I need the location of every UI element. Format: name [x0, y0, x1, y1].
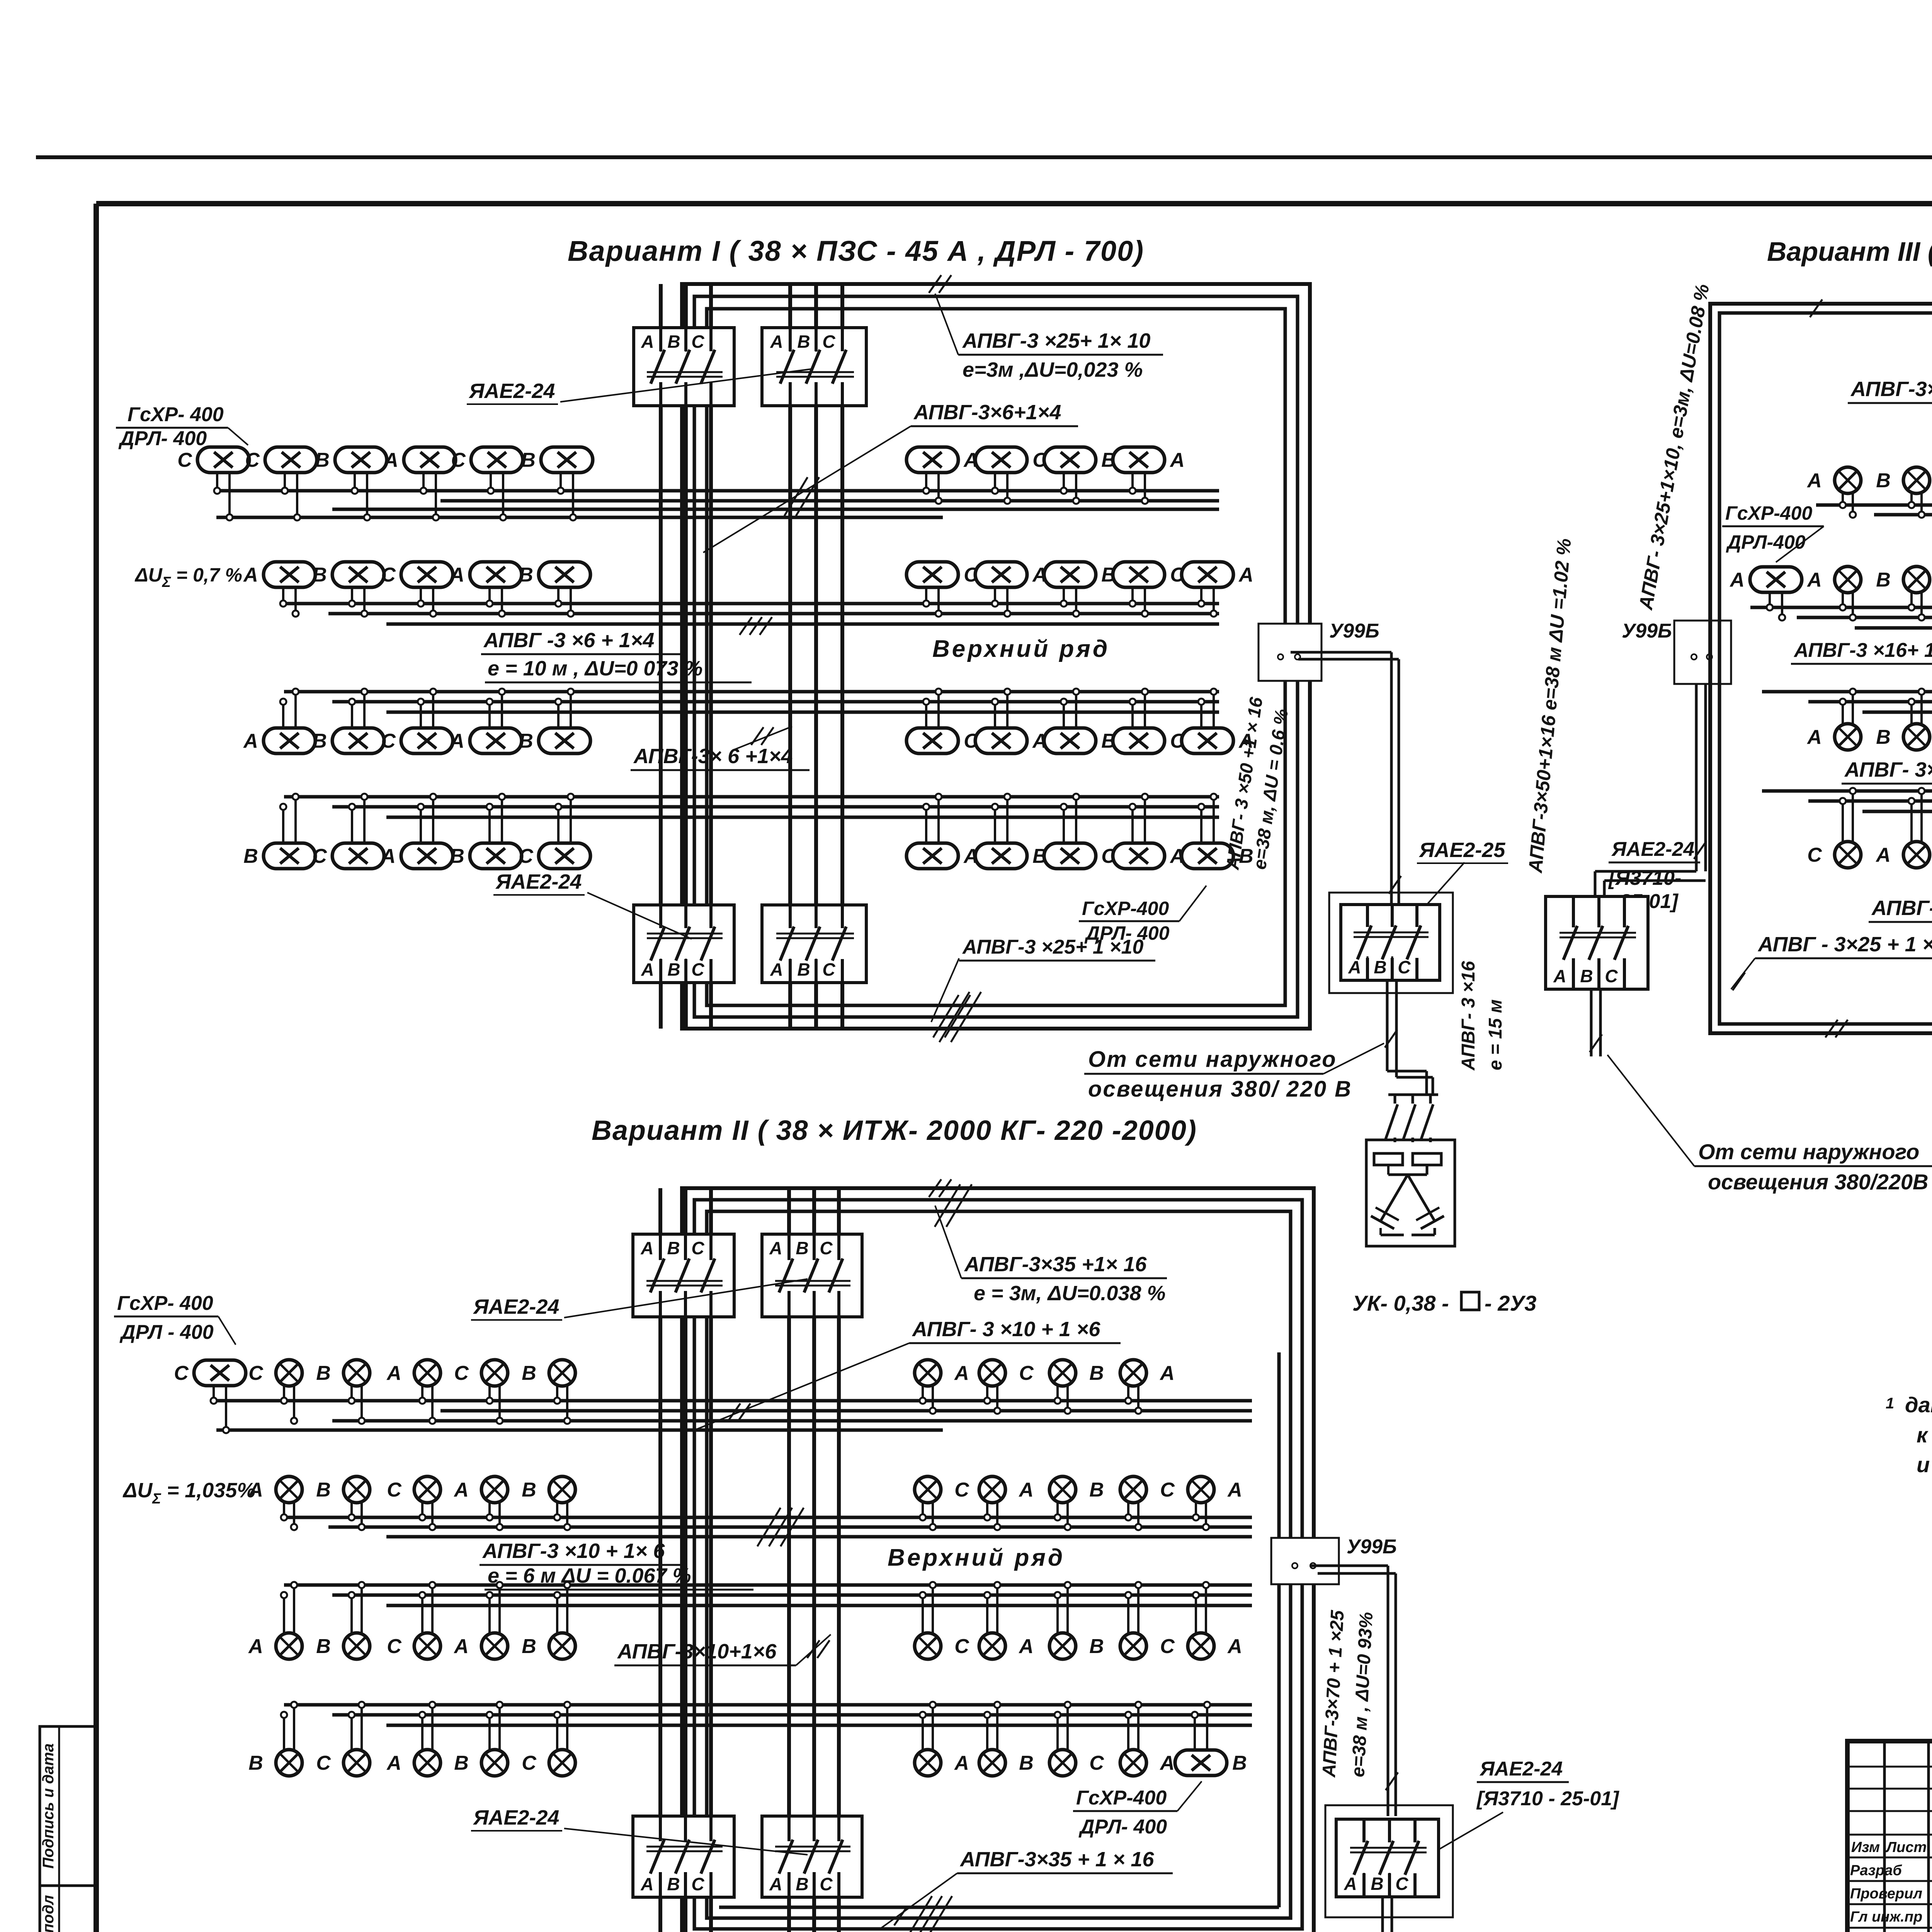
- lamp HL23 (С) ДРЛ-400 floodlight: [381, 689, 453, 753]
- svg-text:С: С: [1160, 1635, 1175, 1658]
- svg-text:С: С: [1605, 966, 1618, 986]
- svg-text:А: А: [954, 1752, 969, 1774]
- lamp HL87 (С) ИТЖ lamp: [387, 1582, 440, 1659]
- svg-text:ЯАЕ2-24: ЯАЕ2-24: [1611, 838, 1694, 861]
- lamp HL85 (А) ИТЖ lamp: [248, 1582, 302, 1659]
- svg-text:А: А: [248, 1479, 263, 1501]
- svg-text:В: В: [521, 449, 536, 471]
- svg-text:В: В: [519, 564, 533, 586]
- svg-text:А: А: [1238, 564, 1253, 586]
- svg-text:В: В: [797, 332, 810, 352]
- lamp HL96 (С) ИТЖ lamp: [316, 1702, 370, 1776]
- lamp HL25 (В) ДРЛ-400 floodlight: [519, 689, 590, 753]
- svg-text:С: С: [691, 959, 704, 980]
- svg-text:В: В: [1876, 726, 1891, 748]
- lamp HL24 (А) ДРЛ-400 floodlight: [449, 689, 522, 753]
- wire slash marks on loop I: [929, 275, 941, 293]
- svg-text:Верхний ряд: Верхний ряд: [888, 1544, 1065, 1571]
- svg-text:С: С: [822, 959, 835, 980]
- svg-text:С: С: [1807, 844, 1822, 866]
- lamp HL104 (В) ДРЛ-400 floodlight: [1175, 1702, 1247, 1776]
- svg-text:А: А: [1875, 844, 1891, 866]
- lamp HL18 (В) ДРЛ-400 floodlight: [1044, 562, 1116, 617]
- wire bus row4 variant I: [284, 797, 1219, 817]
- label АПВГ-3×25+1×10 ΔU=0.08% rotated: [1634, 282, 1713, 612]
- svg-text:В: В: [312, 730, 327, 752]
- wire bus row3 variant III: [1762, 692, 1932, 712]
- lamp HL29 (С) ДРЛ-400 floodlight: [1113, 689, 1185, 753]
- svg-text:А: А: [1018, 1635, 1034, 1658]
- svg-text:ЯАЕ2-24: ЯАЕ2-24: [1479, 1758, 1563, 1780]
- label ГсХР-400/ДРЛ-400 II right: [1073, 1781, 1202, 1838]
- label АПВГ-3×25+1×10 top: [935, 294, 1163, 381]
- left margin box Инв № подл: [40, 1886, 97, 1932]
- svg-text:В: В: [1089, 1362, 1104, 1384]
- lamp HL78 (А) ИТЖ lamp: [453, 1476, 508, 1530]
- lamp HL84 (А) ИТЖ lamp: [1188, 1476, 1242, 1530]
- svg-text:освещения 380/ 220 В: освещения 380/ 220 В: [1088, 1077, 1352, 1102]
- svg-text:А: А: [449, 730, 464, 752]
- svg-text:С: С: [381, 564, 396, 586]
- label АПВГ-3×6+1×4 row2: [481, 617, 772, 682]
- svg-text:В: В: [316, 1635, 331, 1658]
- svg-text:ЯАЕ2-24: ЯАЕ2-24: [473, 1806, 559, 1829]
- svg-text:А: А: [641, 332, 654, 352]
- svg-text:ДРЛ- 400: ДРЛ- 400: [1078, 1816, 1167, 1838]
- svg-text:Подпись и дата: Подпись и дата: [40, 1743, 57, 1869]
- svg-text:А: А: [453, 1635, 469, 1658]
- svg-text:к варианту установки более: к варианту установки более 6 ИТЖ-5000: [1917, 1423, 1932, 1447]
- svg-text:А: А: [383, 449, 398, 471]
- svg-text:С: С: [820, 1874, 833, 1894]
- cable loop variant I: [682, 284, 1310, 1029]
- svg-text:А: А: [770, 959, 783, 980]
- capacitor unit УК-0,38: [1366, 1140, 1455, 1246]
- lamp HL15 (В) ДРЛ-400 floodlight: [519, 562, 590, 617]
- svg-text:С: С: [691, 1874, 704, 1894]
- lamp HL3 (В) ДРЛ-400 floodlight: [315, 447, 387, 520]
- lamp HL89 (В) ИТЖ lamp: [522, 1582, 575, 1659]
- lamp HL76 (В) ИТЖ lamp: [316, 1476, 370, 1530]
- lamp HL82 (В) ИТЖ lamp: [1049, 1476, 1104, 1530]
- lamp HL1 (С) ДРЛ-400 floodlight: [177, 447, 249, 520]
- label АПВГ-3×35+1×16 II bottom: [881, 1848, 1173, 1928]
- lamp HL102 (С) ИТЖ lamp: [1049, 1702, 1104, 1776]
- svg-text:Вариант III ( 12× ИТЖ-5000, КГ: Вариант III ( 12× ИТЖ-5000, КГ-220-5000 …: [1767, 236, 1932, 267]
- svg-text:А: А: [243, 564, 258, 586]
- svg-text:В: В: [667, 1874, 680, 1894]
- svg-text:АПВГ-3×35 + 1 × 16: АПВГ-3×35 + 1 × 16: [959, 1848, 1154, 1871]
- lamp HL53 (А) ИТЖ lamp: [1806, 689, 1861, 750]
- svg-text:В: В: [796, 1238, 808, 1258]
- svg-text:е = 15 м: е = 15 м: [1485, 999, 1506, 1070]
- lamp HL22 (В) ДРЛ-400 floodlight: [312, 689, 384, 753]
- svg-text:С: С: [1160, 1479, 1175, 1501]
- svg-text:Инв № подл: Инв № подл: [40, 1895, 57, 1932]
- wire ЯАЕ2-25 down: [1387, 980, 1433, 1095]
- label ГсХР-400/ДРЛ-400 top-left: [116, 403, 248, 450]
- svg-text:В: В: [519, 730, 533, 752]
- svg-text:- 2У3: - 2У3: [1485, 1291, 1536, 1315]
- svg-text:АПВГ-3 ×16+ 1×10, е=6м ΔU=0.: АПВГ-3 ×16+ 1×10, е=6м ΔU=0.063%: [1793, 639, 1932, 662]
- svg-text:ГсХР- 400: ГсХР- 400: [117, 1292, 213, 1315]
- lamp HL2 (С) ДРЛ-400 floodlight: [245, 447, 317, 520]
- svg-text:В: В: [1580, 966, 1593, 986]
- lamp HL46 (А) ДРЛ-400 floodlight: [1729, 567, 1802, 621]
- svg-text:А: А: [1018, 1479, 1034, 1501]
- lamp HL14 (А) ДРЛ-400 floodlight: [449, 562, 522, 617]
- svg-text:У99Б: У99Б: [1347, 1536, 1397, 1558]
- svg-text:Вариант II ( 38 × ИТЖ- 2000: Вариант II ( 38 × ИТЖ- 2000 КГ- 220 -200…: [592, 1115, 1197, 1146]
- svg-text:От сети наружного: От сети наружного: [1698, 1139, 1919, 1164]
- svg-text:АПВГ-3 ×25+ 1 ×10: АПВГ-3 ×25+ 1 ×10: [962, 936, 1143, 958]
- leader line: [560, 369, 811, 402]
- svg-text:[Я3710 - 25-01]: [Я3710 - 25-01]: [1476, 1787, 1619, 1810]
- junction box У99Б: [1622, 620, 1731, 684]
- svg-text:С: С: [1398, 957, 1411, 977]
- lamp HL73 (В) ИТЖ lamp: [1049, 1360, 1104, 1414]
- lamp HL28 (В) ДРЛ-400 floodlight: [1044, 689, 1116, 753]
- svg-text:С: С: [381, 730, 396, 752]
- svg-text:В: В: [1089, 1479, 1104, 1501]
- svg-text:С: С: [177, 449, 192, 471]
- svg-text:АПВГ- 3 × 16 + 1×10: АПВГ- 3 × 16 + 1×10: [1871, 896, 1932, 920]
- lamp HL38 (С) ДРЛ-400 floodlight: [1044, 794, 1116, 869]
- wire У99Б III down: [1595, 684, 1706, 896]
- breaker box Q5 ЯАЕ2-25: [1341, 905, 1440, 980]
- lamp HL101 (В) ИТЖ lamp: [979, 1702, 1034, 1776]
- label От сети наружного освещения 380/220 В (variant II): [1403, 1928, 1767, 1932]
- breaker box Q6 ЯАЕ2-24 [Я3710-25-01]: [1546, 896, 1648, 989]
- label АПВГ-3×6+1×4 row3: [631, 726, 810, 770]
- disconnect switch УК: [1386, 1095, 1438, 1142]
- svg-text:А: А: [641, 959, 654, 980]
- svg-text:А: А: [453, 1479, 469, 1501]
- svg-text:В: В: [1019, 1752, 1034, 1774]
- lamp HL91 (А) ИТЖ lamp: [979, 1582, 1034, 1659]
- wire down from middle ЯАЕ2-24: [1590, 989, 1602, 1056]
- label ЯАЕ2-24 bottom: [493, 870, 585, 895]
- label АПВГ-3×35+1×16 II top: [935, 1206, 1167, 1305]
- lamp HL94 (А) ИТЖ lamp: [1188, 1582, 1242, 1659]
- svg-text:В: В: [450, 845, 464, 867]
- svg-text:В: В: [667, 959, 680, 980]
- svg-text:ГсХР-400: ГсХР-400: [1076, 1787, 1167, 1809]
- svg-text:А: А: [1159, 1362, 1175, 1384]
- lamp HL10 (А) ДРЛ-400 floodlight: [1113, 447, 1185, 504]
- label ЯАЕ2-25: [1417, 838, 1508, 863]
- lamp HL20 (А) ДРЛ-400 floodlight: [1182, 562, 1253, 617]
- label АПВГ-3×6+1×4 row3 III: [1842, 758, 1932, 815]
- lamp HL81 (А) ИТЖ lamp: [979, 1476, 1034, 1530]
- svg-text:С: С: [822, 332, 835, 352]
- lamp HL70 (В) ИТЖ lamp: [522, 1360, 575, 1424]
- lamp HL19 (С) ДРЛ-400 floodlight: [1113, 562, 1185, 617]
- label ГсХР-400/ДРЛ-400 III left: [1722, 502, 1824, 562]
- svg-text:С: С: [316, 1752, 331, 1774]
- svg-text:е = 10 м , ΔU=0 073 %: е = 10 м , ΔU=0 073 %: [488, 657, 703, 680]
- label АПВГ-3×50+1×16 rotated: [1222, 696, 1292, 871]
- lamp HL27 (А) ДРЛ-400 floodlight: [975, 689, 1047, 753]
- title block frame: [1847, 1741, 1932, 1932]
- svg-text:А: А: [1348, 957, 1361, 977]
- label АПВГ-3×16+1×10 top: [1848, 378, 1932, 450]
- svg-text:Разраб: Разраб: [1850, 1862, 1902, 1879]
- label АПВГ-3×25+1×10 III: [1731, 933, 1932, 990]
- svg-text:е = 3м, ΔU=0.038 %: е = 3м, ΔU=0.038 %: [974, 1282, 1166, 1305]
- svg-text:Лист: Лист: [1885, 1839, 1927, 1855]
- svg-text:С: С: [451, 449, 466, 471]
- svg-text:А: А: [1344, 1874, 1357, 1894]
- svg-text:ГсХР-400: ГсХР-400: [1725, 502, 1812, 524]
- svg-text:В: В: [667, 1238, 680, 1258]
- svg-text:А: А: [449, 564, 464, 586]
- svg-text:В: В: [522, 1479, 536, 1501]
- lamp HL31 (В) ДРЛ-400 floodlight: [243, 794, 315, 869]
- svg-text:С: С: [954, 1479, 969, 1501]
- svg-text:данные в квадратных скобках: данные в квадратных скобках относятся: [1905, 1393, 1932, 1417]
- wire bus row2 variant II: [284, 1517, 1252, 1537]
- lamp HL66 (С) ИТЖ lamp: [248, 1360, 302, 1424]
- footnote про квадратные скобки: [1886, 1393, 1932, 1477]
- wire bus row3 variant I: [284, 692, 1219, 712]
- svg-text:ГсХР- 400: ГсХР- 400: [128, 403, 224, 426]
- label ГсХР-400/ДРЛ-400 II left: [114, 1292, 236, 1345]
- label АПВГ-3×16+1×10 row4 III: [1869, 889, 1932, 922]
- label ЯАЕ2-24 [Я3710-25-01] middle: [1608, 838, 1700, 913]
- label АПВГ-3×25+1×10 bottom: [931, 936, 1155, 1037]
- svg-text:ДРЛ - 400: ДРЛ - 400: [119, 1321, 214, 1344]
- svg-text:А: А: [1806, 726, 1822, 748]
- label АПВГ-3×70+1×25 rotated II: [1319, 1609, 1377, 1778]
- svg-text:В: В: [522, 1635, 536, 1658]
- svg-text:С: С: [820, 1238, 833, 1258]
- wire bus row1 variant I: [216, 491, 1219, 517]
- svg-text:АПВГ -3 ×6 + 1×4: АПВГ -3 ×6 + 1×4: [483, 629, 654, 652]
- svg-text:В: В: [797, 959, 810, 980]
- label УК-0,38-□-2У3: [1352, 1291, 1536, 1315]
- lamp HL54 (В) ИТЖ lamp: [1876, 689, 1930, 750]
- lamp HL93 (С) ИТЖ lamp: [1120, 1582, 1175, 1659]
- svg-text:А: А: [380, 845, 396, 867]
- wire bus row3 variant II: [284, 1585, 1252, 1605]
- svg-text:УК- 0,38 -: УК- 0,38 -: [1352, 1291, 1449, 1315]
- svg-text:С: С: [387, 1479, 402, 1501]
- lamp HL80 (С) ИТЖ lamp: [915, 1476, 969, 1530]
- label От сети наружного освещения 380/220В (variant III): [1607, 1055, 1932, 1194]
- breaker box Q14 ЯАЕ2-24 [Я3710-25-01]: [1336, 1819, 1439, 1897]
- lamp HL5 (С) ДРЛ-400 floodlight: [451, 447, 523, 520]
- lamp HL9 (В) ДРЛ-400 floodlight: [1044, 447, 1116, 504]
- svg-text:В: В: [454, 1752, 469, 1774]
- svg-text:Вариант I ( 38 × ПЗС - 45 А ,: Вариант I ( 38 × ПЗС - 45 А , ДРЛ - 700): [568, 235, 1144, 267]
- lamp HL8 (С) ДРЛ-400 floodlight: [975, 447, 1048, 504]
- lamp HL68 (А) ИТЖ lamp: [386, 1360, 440, 1424]
- svg-text:Изм: Изм: [1851, 1839, 1880, 1855]
- wire bus row1 variant II: [216, 1401, 1252, 1430]
- breaker box Q11 ЯАЕ2-24: [762, 1234, 862, 1317]
- svg-text:е=3м ,ΔU=0,023 %: е=3м ,ΔU=0,023 %: [963, 358, 1143, 381]
- breaker box Q1 ЯАЕ2-24: [634, 328, 734, 406]
- svg-text:А: А: [248, 1635, 263, 1658]
- svg-text:АПВГ-3×6+1×4: АПВГ-3×6+1×4: [913, 401, 1061, 424]
- svg-text:В: В: [1232, 1752, 1247, 1774]
- svg-text:АПВГ-3 ×25+ 1× 10: АПВГ-3 ×25+ 1× 10: [962, 329, 1150, 352]
- trunk wires variant I: [661, 284, 842, 1029]
- svg-text:В: В: [1371, 1874, 1383, 1894]
- breaker box ЯАЕ2-25 outer: [1329, 893, 1453, 993]
- svg-text:ЯАЕ2-24: ЯАЕ2-24: [473, 1295, 559, 1318]
- lamp HL13 (С) ДРЛ-400 floodlight: [381, 562, 453, 617]
- junction box У99Б: [1259, 620, 1379, 681]
- wire down from ЯАЕ2-24 II: [1381, 1897, 1393, 1932]
- lamp HL33 (А) ДРЛ-400 floodlight: [380, 794, 453, 869]
- svg-text:А: А: [386, 1362, 401, 1384]
- lamp HL77 (С) ИТЖ lamp: [387, 1476, 440, 1530]
- svg-text:С: С: [1089, 1752, 1104, 1774]
- svg-text:С: С: [1019, 1362, 1034, 1384]
- cable loop variant III: [1710, 304, 1932, 1033]
- junction box У99Б: [1271, 1536, 1397, 1584]
- lamp HL95 (В) ИТЖ lamp: [248, 1702, 302, 1776]
- svg-text:А: А: [243, 730, 258, 752]
- wire bus row1 variant III: [1816, 505, 1932, 515]
- svg-text:Проверил: Проверил: [1850, 1886, 1922, 1902]
- lamp HL92 (В) ИТЖ lamp: [1049, 1582, 1104, 1659]
- svg-text:ГсХР-400: ГсХР-400: [1082, 898, 1169, 919]
- lamp HL67 (В) ИТЖ lamp: [316, 1360, 370, 1424]
- leader line: [587, 893, 692, 939]
- svg-text:А: А: [640, 1874, 653, 1894]
- svg-text:АПВГ- 3 ×16: АПВГ- 3 ×16: [1458, 961, 1479, 1071]
- label АПВГ-3×50+1×16 ΔU=1.02% rotated: [1524, 537, 1575, 874]
- lamp HL61 (А) ИТЖ lamp: [1875, 788, 1930, 868]
- lamp HL26 (С) ДРЛ-400 floodlight: [906, 689, 979, 753]
- svg-text:С: С: [1395, 1874, 1408, 1894]
- lamp HL75 (А) ИТЖ lamp: [248, 1476, 302, 1530]
- label ΔU=0,7% row2: [134, 564, 242, 590]
- svg-text:А: А: [1729, 569, 1745, 591]
- lamp HL39 (А) ДРЛ-400 floodlight: [1113, 794, 1185, 869]
- svg-text:В: В: [316, 1362, 331, 1384]
- svg-text:С: С: [522, 1752, 537, 1774]
- breaker box Q12 ЯАЕ2-24: [633, 1816, 734, 1897]
- svg-text:У99Б: У99Б: [1329, 620, 1379, 642]
- svg-text:А: А: [1169, 449, 1185, 471]
- lamp HL71 (А) ИТЖ lamp: [915, 1360, 969, 1414]
- leader line: [1406, 862, 1464, 927]
- svg-text:От сети наружного: От сети наружного: [1088, 1047, 1337, 1072]
- svg-text:А: А: [769, 1874, 782, 1894]
- svg-text:А: А: [640, 1238, 653, 1258]
- lamp HL35 (С) ДРЛ-400 floodlight: [519, 794, 590, 869]
- label ΔU=1,035% II: [122, 1479, 255, 1507]
- lamp HL90 (С) ИТЖ lamp: [915, 1582, 969, 1659]
- svg-text:А: А: [1806, 569, 1822, 591]
- svg-text:АПВГ-3×10+1×6: АПВГ-3×10+1×6: [617, 1640, 777, 1663]
- svg-text:В: В: [315, 449, 330, 471]
- left margin box Подпись и дата: [40, 1726, 97, 1886]
- lamp HL11 (А) ДРЛ-400 floodlight: [243, 562, 315, 617]
- breaker box Q2 ЯАЕ2-24: [762, 328, 866, 406]
- svg-text:С: С: [312, 845, 327, 867]
- svg-text:У99Б: У99Б: [1622, 620, 1672, 642]
- label АПВГ-3×10+1×6 II row1: [696, 1318, 1121, 1430]
- wire У99Б II to ЯАЕ2-24: [1310, 1566, 1398, 1816]
- label АПВГ-3×16 е=15м rotated: [1458, 961, 1506, 1071]
- label АПВГ-3×16+1×10 е=6м: [1791, 639, 1932, 664]
- svg-text:В: В: [248, 1752, 263, 1774]
- svg-text:Гл инж.пр: Гл инж.пр: [1850, 1909, 1922, 1925]
- label От сети наружного освещения 380/220 В (variant I): [1084, 1030, 1397, 1102]
- lamp HL74 (А) ИТЖ lamp: [1120, 1360, 1175, 1414]
- svg-text:В: В: [1876, 569, 1891, 591]
- svg-text:С: С: [454, 1362, 469, 1384]
- breaker box Q13 ЯАЕ2-24: [762, 1816, 862, 1897]
- lamp HL17 (А) ДРЛ-400 floodlight: [975, 562, 1047, 617]
- svg-text:А: А: [1159, 1752, 1175, 1774]
- signature table texts: [1850, 1837, 1932, 1932]
- svg-text:В: В: [316, 1479, 331, 1501]
- svg-text:В: В: [312, 564, 327, 586]
- svg-text:А: А: [1806, 469, 1822, 492]
- svg-text:С: С: [174, 1362, 189, 1384]
- svg-text:АПВГ- 3×6+1×4: АПВГ- 3×6+1×4: [1844, 758, 1932, 781]
- lamp HL4 (А) ДРЛ-400 floodlight: [383, 447, 456, 520]
- lamp HL41 (А) ИТЖ lamp: [1806, 467, 1861, 518]
- svg-text:АПВГ - 3×25 + 1 ×10: АПВГ - 3×25 + 1 ×10: [1757, 933, 1932, 956]
- label ЯАЕ2-24 variant II top: [471, 1295, 562, 1320]
- svg-text:С: С: [387, 1635, 402, 1658]
- lamp HL37 (В) ДРЛ-400 floodlight: [975, 794, 1047, 869]
- lamp HL100 (А) ИТЖ lamp: [915, 1702, 969, 1776]
- svg-text:А: А: [386, 1752, 401, 1774]
- svg-text:В: В: [1374, 957, 1386, 977]
- trunk wires variant II: [660, 1188, 839, 1932]
- lamp HL72 (С) ИТЖ lamp: [979, 1360, 1034, 1414]
- lamp HL34 (В) ДРЛ-400 floodlight: [450, 794, 522, 869]
- lamp HL48 (В) ИТЖ lamp: [1876, 566, 1930, 621]
- breaker box Q4 ЯАЕ2-24: [762, 905, 866, 983]
- svg-text:[Я3710-: [Я3710-: [1608, 867, 1681, 889]
- svg-text:С: С: [519, 845, 534, 867]
- label ЯАЕ2-24 top: [467, 379, 558, 404]
- label ЯАЕ2-24 [Я3710-25-01] II: [1430, 1758, 1619, 1855]
- svg-text:АПВГ- 3 ×10 + 1 ×6: АПВГ- 3 ×10 + 1 ×6: [912, 1318, 1100, 1341]
- wire bus row2 variant I: [284, 604, 1219, 624]
- svg-text:ЯАЕ2-25: ЯАЕ2-25: [1418, 838, 1505, 862]
- lamp HL69 (С) ИТЖ lamp: [454, 1360, 508, 1424]
- svg-text:От сети наружного: От сети наружного: [1476, 1928, 1697, 1932]
- lamp HL40 (В) ДРЛ-400 floodlight: [1182, 794, 1253, 869]
- svg-text:С: С: [248, 1362, 264, 1384]
- lamp HL32 (С) ДРЛ-400 floodlight: [312, 794, 384, 869]
- svg-text:1: 1: [1886, 1395, 1894, 1412]
- lamp HL83 (С) ИТЖ lamp: [1120, 1476, 1175, 1530]
- wire bus row4 variant III: [1762, 791, 1932, 811]
- svg-text:АПВГ-3×16+1×10: АПВГ-3×16+1×10: [1850, 378, 1932, 401]
- breaker box Q10 ЯАЕ2-24: [633, 1234, 734, 1317]
- svg-text:В: В: [667, 332, 680, 352]
- svg-text:С: С: [954, 1635, 969, 1658]
- lamp HL30 (А) ДРЛ-400 floodlight: [1182, 689, 1253, 753]
- lamp HL47 (А) ИТЖ lamp: [1806, 566, 1861, 621]
- svg-text:А: А: [769, 1238, 782, 1258]
- svg-text:А: А: [1553, 966, 1566, 986]
- lamp HL99 (С) ИТЖ lamp: [522, 1702, 575, 1776]
- svg-text:ЯАЕ2-24: ЯАЕ2-24: [495, 870, 582, 893]
- breaker box ЯАЕ2-24 [Я3710-25-01] outer II: [1325, 1805, 1453, 1917]
